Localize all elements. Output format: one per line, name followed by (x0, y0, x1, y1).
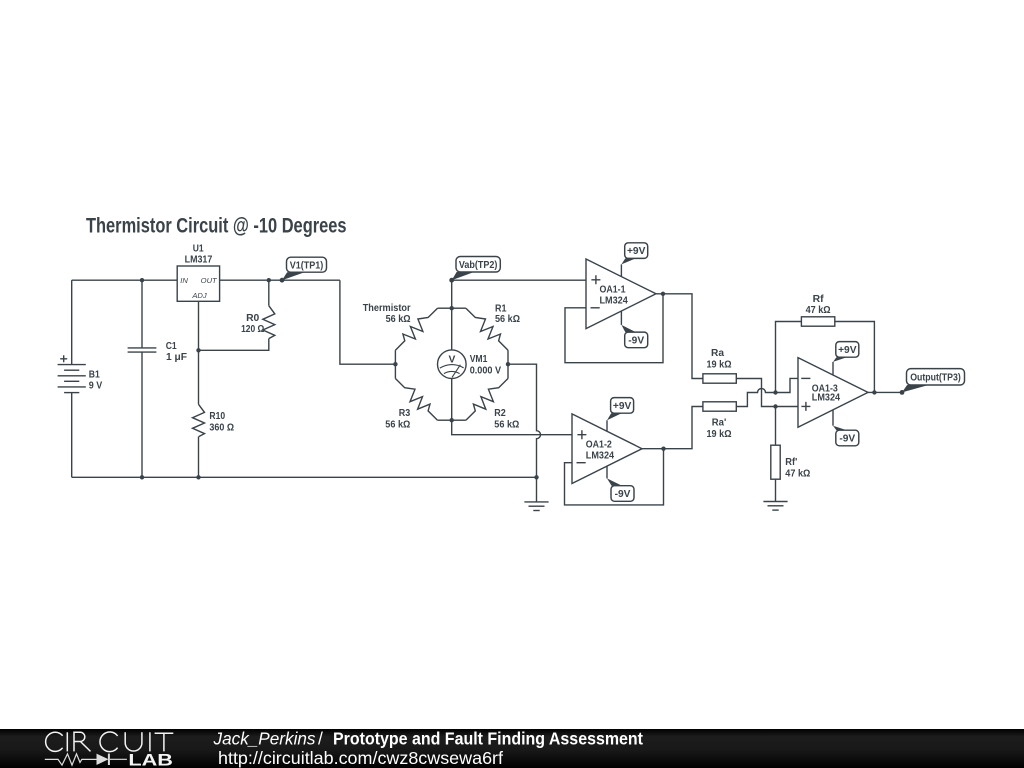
svg-text:56 kΩ: 56 kΩ (386, 314, 411, 325)
svg-text:OA1-2: OA1-2 (586, 440, 612, 451)
svg-text:56 kΩ: 56 kΩ (385, 420, 410, 431)
wire Vab node to bridge top (451, 280, 453, 308)
node bridge bottom (450, 418, 454, 422)
node ADJ junction (196, 348, 200, 352)
svg-text:LM324: LM324 (600, 296, 629, 307)
svg-text:LM317: LM317 (185, 254, 213, 265)
svg-text:U1: U1 (193, 244, 204, 255)
flag V1(TP1) (280, 257, 327, 282)
svg-text:/: / (318, 729, 323, 749)
svg-text:http://circuitlab.com/cwz8cwse: http://circuitlab.com/cwz8cwsewa6rf (218, 748, 503, 768)
resistor R0 120ohm (241, 280, 275, 338)
wire top rail battery to U1 IN (72, 279, 178, 281)
footer author line (213, 729, 644, 749)
flag Output(TP3) (900, 369, 965, 395)
svg-text:R1: R1 (495, 304, 507, 315)
svg-text:Vab(TP2): Vab(TP2) (459, 260, 498, 271)
node C1 bottom (140, 475, 144, 479)
wire U1 ADJ pin (198, 301, 200, 350)
svg-text:0.000 V: 0.000 V (470, 366, 502, 377)
node OA1-3 output (872, 390, 876, 394)
wire U1 OUT to V1 node (220, 279, 340, 281)
wire Vab to OA1-1 noninverting input (452, 279, 586, 281)
svg-text:Thermistor: Thermistor (363, 303, 411, 314)
wire OA1-2 inverting feedback (565, 449, 664, 505)
CircuitLab logo text CIRCUIT (drawn) (46, 732, 174, 752)
wire OA1-1 inverting feedback (565, 294, 663, 363)
svg-text:Rf': Rf' (785, 457, 797, 468)
svg-text:360 Ω: 360 Ω (209, 423, 234, 434)
svg-text:C1: C1 (166, 341, 177, 352)
op-amp OA1-3 LM324 (798, 358, 868, 428)
svg-text:ADJ: ADJ (191, 291, 207, 300)
CircuitLab logo resistor-diode glyph (45, 754, 127, 766)
svg-text:Rf: Rf (813, 294, 825, 305)
node OA1-2 output (661, 447, 665, 451)
svg-text:Output(TP3): Output(TP3) (910, 373, 961, 384)
resistor R2 56k (bridge bottom-right) (452, 364, 520, 430)
svg-text:56 kΩ: 56 kΩ (495, 314, 520, 325)
wire Ra' to OA1-3 - node (with hop) (736, 389, 775, 407)
svg-text:120 Ω: 120 Ω (241, 324, 264, 335)
footer banner (0, 729, 1024, 768)
node OA1-3 noninverting (773, 404, 777, 408)
svg-text:47 kΩ: 47 kΩ (806, 305, 831, 316)
wire OA1-2 output to Ra' (642, 407, 703, 449)
svg-text:V: V (448, 354, 455, 365)
svg-text:LAB: LAB (128, 751, 173, 768)
wire bottom rail (72, 476, 537, 478)
title text (86, 215, 347, 238)
op-amp OA1-2 LM324 (572, 414, 642, 484)
node R0 top (267, 278, 271, 282)
node OA1-1 output (661, 292, 665, 296)
node C1 top (140, 278, 144, 282)
svg-text:OA1-1: OA1-1 (600, 285, 626, 296)
svg-text:-9V: -9V (839, 434, 855, 445)
voltmeter VM1 (438, 308, 502, 420)
resistor Ra 19k (703, 348, 736, 383)
node ground junction (534, 475, 538, 479)
svg-text:Jack_Perkins: Jack_Perkins (213, 729, 316, 749)
svg-text:+9V: +9V (613, 401, 632, 412)
svg-text:R0: R0 (246, 313, 259, 324)
wire - node up to Rf (776, 322, 802, 393)
resistor Ra' 19k (703, 402, 736, 440)
wire bridge bottom to OA1-2 noninverting input (452, 420, 572, 435)
svg-text:R10: R10 (209, 411, 225, 422)
svg-text:LM324: LM324 (586, 451, 615, 462)
wire + node to OA1-3 noninverting pin (776, 406, 799, 408)
power flag -9V (OA1-1) (621, 311, 647, 348)
svg-text:19 kΩ: 19 kΩ (707, 360, 732, 371)
svg-text:B1: B1 (89, 369, 100, 380)
power flag -9V (OA1-2) (607, 466, 634, 501)
wire - node jog to OA1-3 inverting pin (776, 378, 799, 392)
thermistor 56k (bridge top-left) (363, 303, 452, 364)
wire OA1-3 output (868, 391, 902, 393)
resistor R3 56k (bridge bottom-left) (385, 364, 451, 430)
wire bridge right to ground rail (with hop) (508, 364, 541, 477)
svg-text:Thermistor Circuit @ -10 Degre: Thermistor Circuit @ -10 Degrees (86, 215, 347, 238)
wire ADJ to R0 bottom (199, 339, 269, 351)
ground (Rf') (763, 479, 787, 510)
resistor R1 56k (bridge top-right) (452, 304, 520, 365)
svg-text:+9V: +9V (627, 246, 646, 257)
node bridge top (450, 306, 454, 310)
resistor Rf' 47k (771, 407, 811, 480)
node bridge left (393, 362, 397, 366)
node Vab (450, 278, 454, 282)
svg-text:V1(TP1): V1(TP1) (290, 260, 324, 271)
wire Ra to OA1-3 + node (736, 379, 775, 407)
svg-text:9 V: 9 V (89, 380, 103, 391)
svg-text:IN: IN (180, 276, 188, 285)
svg-text:LM324: LM324 (812, 393, 841, 404)
svg-text:Ra: Ra (711, 348, 724, 359)
wire V1 node down to bridge left (340, 280, 396, 364)
svg-text:-9V: -9V (628, 336, 644, 347)
svg-text:R2: R2 (494, 408, 506, 419)
svg-text:47 kΩ: 47 kΩ (785, 469, 810, 480)
op-amp OA1-1 LM324 (586, 259, 656, 329)
power flag -9V (OA1-3) (833, 410, 859, 446)
power flag +9V (OA1-3) (833, 342, 859, 376)
svg-text:56 kΩ: 56 kΩ (494, 420, 519, 431)
power flag +9V (OA1-2) (607, 398, 634, 432)
wire Rf to OA1-3 output (835, 322, 875, 393)
footer url line (218, 748, 503, 768)
svg-text:OUT: OUT (201, 276, 218, 285)
resistor Rf 47k (801, 294, 834, 326)
regulator U1 LM317 (177, 244, 219, 302)
flag Vab(TP2) (449, 257, 500, 283)
node R10 bottom (196, 475, 200, 479)
svg-text:19 kΩ: 19 kΩ (707, 429, 732, 440)
svg-text:+9V: +9V (838, 345, 857, 356)
svg-text:1 μF: 1 μF (166, 352, 187, 363)
node OA1-3 inverting (773, 390, 777, 394)
svg-text:R3: R3 (399, 408, 411, 419)
svg-text:-9V: -9V (615, 489, 631, 500)
resistor R10 360ohm (193, 350, 235, 477)
capacitor C1 (128, 280, 187, 477)
wire OA1-1 output to Ra (656, 294, 703, 379)
svg-text:Prototype and Fault Finding As: Prototype and Fault Finding Assessment (333, 729, 643, 749)
ground (bridge/divider) (524, 477, 548, 510)
CircuitLab logo text LAB (128, 751, 173, 768)
power flag +9V (OA1-1) (621, 243, 647, 277)
svg-text:Ra': Ra' (712, 417, 727, 428)
battery B1 (58, 280, 103, 477)
svg-text:VM1: VM1 (470, 354, 488, 365)
node bridge right (506, 362, 510, 366)
